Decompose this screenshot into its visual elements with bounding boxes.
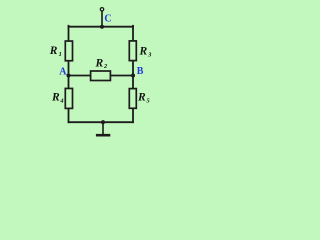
svg-text:B: B [137,66,144,77]
wire right rail middle [132,61,134,88]
wire right rail lower [132,109,134,122]
wire left rail lower [68,109,70,122]
wire bottom rail [69,121,134,123]
wire left rail middle [68,61,70,88]
wire top rail [69,26,134,28]
svg-text:R: R [95,57,104,69]
svg-text:1: 1 [59,51,62,58]
ground junction [101,120,105,124]
ground bar [96,134,110,137]
svg-text:R: R [49,45,58,57]
resistor R4 [65,88,72,108]
wire right rail upper [132,26,134,41]
node junction at C [100,25,104,29]
node B junction [131,73,135,77]
resistor R2 [91,71,111,81]
terminal C circle [100,8,103,11]
wire bridge A to R2 [69,75,91,77]
resistor R5 [129,89,136,109]
wire R2 to B [110,75,133,77]
svg-text:4: 4 [59,97,63,104]
resistor R1 [65,41,72,61]
svg-text:R: R [139,45,148,57]
svg-text:R: R [51,91,60,103]
wire left rail upper [68,26,70,41]
node A junction [66,73,70,77]
svg-text:3: 3 [147,51,151,58]
svg-text:2: 2 [103,63,107,70]
wire ground stem [102,122,104,134]
svg-text:5: 5 [147,98,150,105]
resistor R3 [129,41,136,61]
svg-text:A: A [59,66,67,77]
svg-text:R: R [137,92,146,104]
wire terminal C stub [101,11,103,27]
svg-text:C: C [104,14,111,25]
